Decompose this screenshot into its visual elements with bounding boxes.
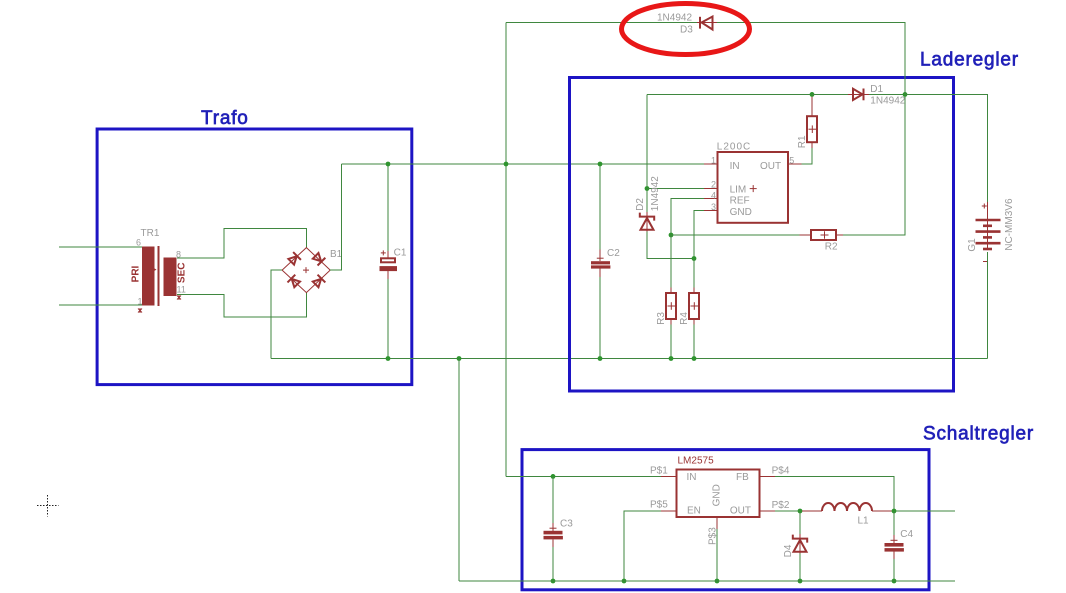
wire C1 top connection — [387, 164, 389, 251]
pin label 6 TR1 — [136, 238, 141, 248]
junction R4 ground — [692, 356, 697, 361]
wire C2 bottom connection — [599, 277, 601, 359]
svg-text:P$4: P$4 — [772, 465, 790, 476]
pin label P$5 LM2575 — [650, 500, 668, 511]
pin label P$1 LM2575 — [650, 466, 668, 477]
svg-text:R1: R1 — [797, 135, 808, 148]
polarity mark secondary pin 11 — [177, 295, 181, 300]
svg-text:C2: C2 — [607, 248, 620, 259]
capacitor C3 — [544, 518, 574, 547]
pin label 2 L200C — [711, 179, 716, 189]
regulator U1 L200C — [704, 142, 802, 223]
resistor R1 — [797, 94, 817, 148]
svg-text:IN: IN — [687, 472, 697, 483]
junction ground to Schaltregler drop — [457, 356, 462, 361]
wire REF pin 4 to R2/R3 node — [671, 199, 704, 236]
wire C4 bottom to ground rail — [893, 559, 895, 581]
svg-text:D1: D1 — [870, 84, 883, 95]
pin label 1 TR1 — [138, 297, 143, 307]
highlight ellipse around D3 — [622, 4, 750, 55]
svg-text:L200C: L200C — [717, 142, 751, 153]
capacitor C1 — [380, 248, 407, 280]
wire C3 bottom to ground rail — [552, 547, 554, 581]
svg-text:11: 11 — [177, 285, 186, 295]
wire D1 cathode to battery node — [869, 93, 905, 95]
junction GND/D2/R4 node — [692, 256, 697, 261]
bridge rectifier B1 — [282, 248, 343, 293]
zener diode D4 — [783, 534, 807, 557]
junction C1 bottom — [386, 356, 391, 361]
svg-text:Laderegler: Laderegler — [920, 50, 1019, 71]
wire D2 branch down from corner — [646, 94, 648, 212]
wire node to R3 top — [670, 235, 672, 288]
wire D3 cathode side to battery node drop — [717, 23, 905, 95]
title Schaltregler — [923, 424, 1034, 445]
pin label P$2 LM2575 — [772, 500, 790, 511]
svg-text:IN: IN — [730, 161, 740, 172]
wire L1 to output stub — [892, 510, 956, 512]
wire bridge minus to ground rail — [271, 270, 282, 358]
pin label P$4 LM2575 — [772, 465, 790, 476]
wire bridge plus up to top rail — [330, 164, 341, 270]
svg-text:GND: GND — [730, 207, 752, 218]
junction D3 branch / top rail — [504, 162, 509, 167]
diode D3 — [657, 13, 717, 36]
svg-text:1N4942: 1N4942 — [657, 13, 692, 24]
svg-text:1: 1 — [138, 297, 143, 307]
wire D3 branch left drop (top rail to Schaltregler input) — [505, 23, 507, 477]
wire D4 top connection — [799, 511, 801, 534]
title Laderegler — [920, 50, 1019, 71]
junction C3 top — [551, 474, 556, 479]
svg-text:FB: FB — [736, 472, 749, 483]
junction R3 ground — [669, 356, 674, 361]
pin label 8 TR1 — [176, 250, 181, 260]
svg-text:REF: REF — [730, 196, 750, 207]
svg-text:6: 6 — [136, 238, 141, 248]
svg-text:Trafo: Trafo — [201, 108, 249, 129]
wire R4 bottom to ground rail — [693, 325, 695, 359]
wire R3 bottom to ground rail — [670, 325, 672, 359]
frame Schaltregler — [522, 450, 929, 590]
junction C1 top — [386, 162, 391, 167]
junction D4 ground — [798, 579, 803, 584]
svg-text:D3: D3 — [680, 24, 693, 35]
svg-text:2: 2 — [711, 179, 716, 189]
wire C2 top connection — [599, 164, 601, 250]
frame Trafo — [97, 129, 412, 385]
junction C4 ground — [892, 579, 897, 584]
node top rail (B1+ / C1 / D3 branch / C2 / L200C IN) — [342, 163, 705, 165]
junction C3 ground — [551, 579, 556, 584]
wire D4 anode to ground rail — [799, 554, 801, 582]
junction EN ground — [622, 579, 627, 584]
wire primary pin 6 input — [59, 246, 142, 248]
svg-text:NC-MM3V6: NC-MM3V6 — [1004, 198, 1015, 251]
wire secondary pin 11 to bridge AC bottom — [177, 293, 306, 317]
svg-text:GND: GND — [712, 484, 723, 506]
battery G1 — [967, 198, 1015, 261]
title Trafo — [201, 108, 249, 129]
resistor R3 — [656, 288, 676, 325]
svg-text:OUT: OUT — [760, 161, 781, 172]
wire R2 left — [671, 234, 800, 236]
wire R1 bottom to OUT pin 5 — [802, 148, 813, 164]
svg-text:LIM: LIM — [730, 184, 747, 195]
svg-text:EN: EN — [687, 505, 701, 516]
pin label 5 L200C — [789, 155, 794, 165]
svg-text:P$1: P$1 — [650, 466, 668, 477]
capacitor C2 — [591, 248, 620, 277]
wire FB pin to output node — [775, 476, 894, 511]
wire node to R4 top — [693, 259, 695, 288]
svg-text:P$2: P$2 — [772, 500, 790, 511]
svg-text:R2: R2 — [825, 242, 838, 253]
wire D3 anode side — [506, 22, 697, 24]
wire LIM pin 2 — [647, 188, 704, 190]
junction D4 top — [798, 509, 803, 514]
junction C4 top / FB — [892, 509, 897, 514]
wire EN pin to ground rail — [624, 511, 661, 581]
svg-text:R3: R3 — [656, 312, 667, 325]
wire D2 anode to GND net elbow — [647, 232, 694, 259]
resistor R2 — [800, 230, 844, 253]
wire GND pin 3 to node elbow — [694, 211, 704, 259]
wire D1 net from D2 corner to R1 — [647, 93, 812, 95]
node ground rail — [271, 358, 988, 360]
regulator U2 LM2575 — [661, 456, 775, 530]
resistor R4 — [679, 288, 699, 325]
label SEC — [176, 263, 187, 284]
wire input feed to LM2575 IN — [506, 475, 661, 477]
wire GND pin to ground rail — [716, 529, 718, 581]
wire battery minus to ground rail — [987, 252, 989, 359]
svg-text:LM2575: LM2575 — [678, 456, 715, 467]
pin label P$3 LM2575 — [708, 527, 719, 545]
svg-text:PRI: PRI — [130, 265, 141, 282]
wire battery plus feed — [905, 94, 988, 202]
svg-text:C1: C1 — [394, 248, 407, 259]
wire OUT pin to L1 — [775, 510, 802, 512]
junction R1 top — [810, 92, 815, 97]
junction C2 bottom — [598, 356, 603, 361]
junction REF/R2/R3 node — [669, 233, 674, 238]
pin label 3 L200C — [711, 202, 716, 212]
svg-text:D2: D2 — [635, 198, 646, 211]
pin label 11 TR1 — [177, 285, 186, 295]
inductor L1 — [802, 503, 892, 526]
junction D2 LIM — [645, 186, 650, 191]
junction GND ground — [715, 579, 720, 584]
svg-text:C4: C4 — [900, 529, 913, 540]
svg-text:1N4942: 1N4942 — [870, 95, 905, 106]
pin label 4 L200C — [711, 190, 716, 200]
wire ground rail drop to Schaltregler — [458, 359, 460, 582]
svg-text:4: 4 — [711, 190, 716, 200]
wire primary pin 1 input — [59, 304, 142, 306]
zener diode D2 — [635, 176, 661, 232]
wire D1 left — [812, 93, 848, 95]
junction D1/D3/R2 node — [903, 92, 908, 97]
node Schaltregler ground rail — [459, 580, 955, 582]
wire secondary pin 8 to bridge AC top — [177, 229, 306, 258]
svg-text:1N4942: 1N4942 — [650, 176, 661, 211]
svg-text:R4: R4 — [679, 312, 690, 325]
frame Laderegler — [570, 78, 954, 392]
wire C3 top connection — [552, 476, 554, 523]
svg-text:TR1: TR1 — [141, 228, 160, 239]
diode D1 — [848, 84, 906, 106]
capacitor C4 — [885, 529, 914, 559]
wire C1 bottom connection — [387, 279, 389, 359]
junction C2 top — [598, 162, 603, 167]
svg-text:1: 1 — [711, 155, 716, 165]
svg-text:L1: L1 — [858, 515, 870, 526]
svg-text:Schaltregler: Schaltregler — [923, 424, 1034, 445]
svg-text:P$5: P$5 — [650, 500, 668, 511]
wire R2 right up to D1 output node — [843, 94, 905, 235]
svg-text:3: 3 — [711, 202, 716, 212]
label PRI — [130, 265, 141, 282]
svg-text:5: 5 — [789, 155, 794, 165]
svg-text:D4: D4 — [783, 544, 794, 557]
origin cross marker — [37, 495, 59, 517]
svg-text:OUT: OUT — [730, 505, 751, 516]
svg-text:C3: C3 — [560, 518, 573, 529]
polarity mark primary pin 1 — [138, 308, 142, 313]
svg-text:B1: B1 — [330, 249, 343, 260]
svg-text:G1: G1 — [967, 238, 978, 252]
wire C4 top connection — [893, 511, 895, 535]
svg-text:SEC: SEC — [176, 263, 187, 284]
pin label 1 L200C — [711, 155, 716, 165]
transformer TR1 — [141, 228, 177, 306]
